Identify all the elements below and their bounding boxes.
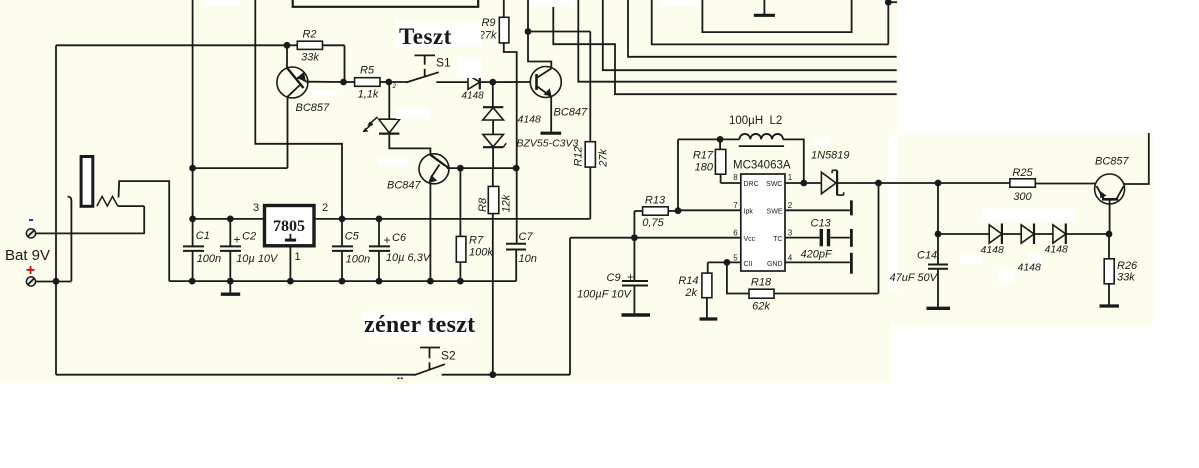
wire R12 top riser bbox=[589, 32, 591, 142]
svg-text:+: + bbox=[384, 233, 391, 247]
svg-text:10µ 6,3V: 10µ 6,3V bbox=[386, 252, 432, 264]
white patch above 1N5819 bbox=[813, 137, 830, 147]
svg-text:C5: C5 bbox=[345, 231, 360, 243]
svg-text:BZV55-C3V3: BZV55-C3V3 bbox=[517, 138, 579, 150]
switch S2 blade bbox=[414, 364, 445, 375]
svg-text:27k: 27k bbox=[598, 149, 610, 168]
transistor Q4 BC857 body bbox=[1095, 174, 1125, 204]
wire D5 to output node bbox=[836, 182, 879, 184]
svg-text:47uF 50V: 47uF 50V bbox=[890, 272, 939, 284]
transistor Q3 base bar bbox=[430, 155, 444, 166]
svg-text:S1: S1 bbox=[436, 56, 451, 70]
transistor Q3 BC847 body bbox=[419, 154, 449, 184]
svg-text:+: + bbox=[234, 233, 241, 247]
node diode row junction bbox=[935, 231, 942, 238]
node battery plus junction bbox=[53, 278, 60, 285]
resistor R5 bbox=[344, 81, 355, 83]
svg-text:R9: R9 bbox=[481, 17, 495, 29]
transistor Q3 collector diagonal bbox=[444, 165, 449, 168]
switch S2 actuator bbox=[420, 347, 440, 349]
transistor Q2 BC847 body bbox=[530, 67, 561, 98]
svg-text:12k: 12k bbox=[501, 194, 513, 212]
white patch top edge 2 bbox=[530, 0, 575, 7]
wire GND pin4 wire bbox=[785, 261, 850, 263]
svg-text:C13: C13 bbox=[811, 218, 832, 230]
node S1 input junction bbox=[385, 79, 392, 86]
resistor R7 bbox=[456, 236, 466, 262]
svg-text:10µ 10V: 10µ 10V bbox=[236, 253, 279, 265]
white patch top edge 1 bbox=[205, 0, 240, 6]
node Q3 emitter bottom bbox=[427, 278, 434, 285]
wire collector node to top edge bbox=[527, 0, 529, 32]
svg-text:3: 3 bbox=[788, 229, 793, 238]
bar pin4 connector stub bbox=[850, 253, 853, 274]
wire R18 right to output riser bbox=[774, 293, 879, 295]
connector plug body bbox=[81, 157, 93, 207]
wire bus V2 from top to y82 rail bbox=[578, 0, 896, 82]
ground symbol inside top-right block bbox=[763, 0, 765, 15]
svg-text:R26: R26 bbox=[1117, 260, 1138, 272]
svg-text:R8: R8 bbox=[477, 197, 489, 212]
svg-text:+: + bbox=[627, 270, 634, 284]
node C2 bottom bbox=[227, 278, 234, 285]
wire S1 to D1 bbox=[436, 81, 468, 83]
svg-text:C2: C2 bbox=[242, 231, 256, 243]
white patch below mid diode bbox=[999, 268, 1016, 284]
diode D7 4148 bbox=[1021, 225, 1034, 243]
svg-text:C6: C6 bbox=[392, 232, 407, 244]
transistor Q4 collector diagonal bbox=[1117, 186, 1124, 198]
white patch near LED bbox=[396, 108, 430, 119]
switch S1 actuator T-bar bbox=[415, 54, 436, 56]
transistor Q4 emitter diagonal bbox=[1097, 186, 1104, 199]
wire Q4 collector jog up bbox=[1124, 133, 1149, 184]
svg-text:1: 1 bbox=[788, 173, 793, 182]
transistor Q3 emitter arrow bbox=[428, 175, 437, 183]
transistor Q2 emitter diagonal bbox=[537, 86, 552, 97]
transistor Q2 emitter arrow bbox=[544, 88, 552, 96]
svg-text:33k: 33k bbox=[301, 52, 319, 64]
schematic cream background lower bbox=[0, 325, 891, 383]
node C1 rail y168 junction bbox=[189, 165, 196, 172]
svg-text:R2: R2 bbox=[302, 29, 316, 41]
node SWC L2 junction bbox=[800, 180, 807, 187]
white patch above right diodes bbox=[981, 209, 1076, 222]
svg-text:4148: 4148 bbox=[462, 91, 485, 102]
node R2 left junction bbox=[284, 42, 291, 49]
wire Q3 emitter to ground rail bbox=[429, 183, 431, 281]
wire Ipk wire bbox=[678, 209, 741, 211]
svg-text:2: 2 bbox=[788, 201, 793, 210]
svg-text:BC847: BC847 bbox=[554, 107, 589, 119]
wire output to R25 bbox=[938, 182, 1010, 184]
svg-text:BC857: BC857 bbox=[1095, 156, 1130, 168]
diode D1 4148 bbox=[468, 75, 480, 89]
ic U2 MC34063A box bbox=[741, 174, 785, 271]
svg-text:6: 6 bbox=[733, 229, 738, 238]
svg-text:2k: 2k bbox=[684, 287, 697, 299]
diode D6 4148 bbox=[989, 225, 1002, 243]
wire Q1 emitter to node bbox=[308, 81, 344, 83]
wire collector rail y168 bbox=[447, 167, 516, 169]
schematic cream background main bbox=[0, 0, 897, 325]
svg-text:100k: 100k bbox=[469, 247, 493, 259]
svg-text:0,75: 0,75 bbox=[642, 217, 664, 229]
capacitor C6 bbox=[369, 245, 390, 247]
node C6 bottom bbox=[376, 278, 383, 285]
capacitor C9 bbox=[633, 238, 635, 281]
svg-text:2: 2 bbox=[322, 202, 328, 214]
wire diode row segment 4 bbox=[1066, 233, 1109, 235]
wire diode row segment 1 bbox=[938, 233, 989, 235]
transistor Q1 emitter diagonal bbox=[298, 77, 308, 82]
wire outer frame rect2 right riser bbox=[887, 2, 889, 44]
transistor Q1 base riser bbox=[286, 45, 288, 68]
node R7 bottom bbox=[457, 278, 464, 285]
terminal minus bbox=[26, 229, 35, 238]
svg-text:5: 5 bbox=[733, 254, 738, 263]
svg-text:4148: 4148 bbox=[518, 114, 542, 126]
wire C1 riser from top edge bbox=[192, 0, 194, 219]
svg-text:Ipk: Ipk bbox=[744, 209, 754, 216]
svg-text:8: 8 bbox=[733, 173, 738, 182]
svg-text:R7: R7 bbox=[469, 235, 484, 247]
capacitor C5 bbox=[332, 245, 353, 247]
wire D1 junction down to stack bbox=[492, 82, 494, 107]
svg-text:1N5819: 1N5819 bbox=[811, 150, 850, 162]
inductor L2 core bar bbox=[739, 145, 784, 147]
capacitor C14 bbox=[937, 234, 939, 265]
transistor Q1 emitter arrow bbox=[296, 72, 306, 80]
wire R8 bottom to S2 rail bbox=[492, 214, 494, 375]
diode D8 4148 bbox=[1053, 225, 1066, 243]
switch S1 blade bbox=[389, 81, 408, 83]
wire top frame box bottom (cut-off block) bbox=[293, 0, 479, 7]
svg-text:62k: 62k bbox=[752, 301, 770, 313]
wire stack bottom to collector rail bbox=[492, 147, 494, 168]
svg-text:7: 7 bbox=[733, 201, 738, 210]
capacitor C7 bbox=[506, 243, 526, 245]
svg-text:C14: C14 bbox=[917, 250, 937, 262]
resistor R2 bbox=[287, 44, 297, 46]
svg-text:1,1k: 1,1k bbox=[358, 89, 379, 101]
svg-text:R17: R17 bbox=[693, 150, 714, 162]
wire Q3 collector to rail bbox=[446, 166, 447, 169]
wire Vcc riser bbox=[569, 238, 571, 375]
wire R18 left path bbox=[727, 262, 749, 293]
wire S2 to R8 junction bbox=[442, 374, 570, 376]
node pin5 junction bbox=[724, 259, 731, 266]
regulator U1 7805 box bbox=[265, 206, 315, 246]
node C1 bottom bbox=[189, 278, 196, 285]
svg-text:SWC: SWC bbox=[766, 181, 782, 188]
svg-text:300: 300 bbox=[1013, 191, 1032, 203]
svg-text:zéner teszt: zéner teszt bbox=[364, 312, 475, 338]
svg-text:R25: R25 bbox=[1012, 167, 1033, 179]
diode D3 BZV55-C3V3 (down) bbox=[483, 134, 504, 146]
svg-text:100µH L2: 100µH L2 bbox=[729, 115, 782, 127]
wire diode row segment 2 bbox=[1002, 233, 1021, 235]
wire R12 bottom to 5V rail bbox=[589, 167, 591, 219]
svg-text:100n: 100n bbox=[197, 253, 221, 265]
resistor R17 bbox=[719, 139, 721, 149]
wire D1 junction to Q2 base bbox=[493, 81, 531, 83]
wire CII pin5 wire bbox=[708, 261, 741, 263]
wire left main vertical x56 bbox=[55, 45, 57, 374]
svg-text:4148: 4148 bbox=[1045, 244, 1069, 256]
wire between stack diodes bbox=[492, 120, 494, 134]
wire bottom rail to S2 bbox=[56, 374, 415, 376]
wire R7 riser bbox=[459, 168, 461, 236]
node collector bus junction bbox=[525, 28, 532, 35]
wire output feedback riser bbox=[878, 183, 880, 294]
node D1 cathode junction bbox=[489, 79, 496, 86]
transistor Q2 collector diagonal bbox=[537, 69, 552, 79]
transistor Q3 emitter diagonal bbox=[431, 165, 440, 178]
svg-text:S2: S2 bbox=[441, 349, 456, 363]
svg-text:GND: GND bbox=[767, 261, 783, 268]
wire L2 input bbox=[678, 138, 739, 140]
diode D5 1N5819 bbox=[821, 172, 836, 194]
bar pin3 connector stub bbox=[850, 229, 853, 247]
ground symbol under C2 bbox=[229, 281, 231, 292]
regulator U1 tab symbol bbox=[289, 234, 291, 239]
transistor Q4 base bar bbox=[1102, 198, 1118, 201]
transistor Q1 BC857 body bbox=[277, 67, 308, 98]
wire Vcc feed bbox=[570, 237, 741, 239]
white patch right diode mid bbox=[960, 255, 981, 264]
node C14 top junction bbox=[935, 180, 942, 187]
wire outer frame rect2 left side bbox=[652, 0, 889, 44]
LED D4 arrows bbox=[371, 117, 378, 123]
node R5 left junction bbox=[340, 79, 347, 86]
resistor R25 bbox=[1010, 179, 1035, 187]
svg-text:BC857: BC857 bbox=[296, 102, 331, 114]
wire diode row segment 3 bbox=[1034, 233, 1053, 235]
node C6 top junction bbox=[376, 216, 383, 223]
wire bus V5 from top to y57 rail bbox=[628, 0, 897, 57]
svg-text:-: - bbox=[28, 211, 33, 228]
node C1 top junction bbox=[189, 216, 196, 223]
transistor Q4 emitter arrow bbox=[1100, 191, 1107, 199]
wire R25 to Q4 base bbox=[1035, 183, 1096, 185]
wire ground rail bbox=[169, 280, 516, 282]
white patch top edge 3 bbox=[660, 0, 700, 6]
wire minus terminal to plug bbox=[36, 232, 145, 234]
wire R7 bottom to ground rail bbox=[459, 262, 461, 281]
wire plus terminal to rail bbox=[36, 281, 72, 283]
svg-text:7805: 7805 bbox=[273, 218, 305, 235]
connector plug cable zigzag bbox=[97, 196, 118, 206]
LED D4 body bbox=[379, 119, 400, 133]
node C5 bottom bbox=[339, 278, 346, 285]
svg-text:100n: 100n bbox=[346, 253, 370, 265]
connector plug pin hook bbox=[68, 197, 72, 282]
capacitor C1 bbox=[183, 245, 204, 247]
node R17 top junction bbox=[717, 136, 724, 143]
svg-text:10n: 10n bbox=[519, 253, 537, 265]
white seam between blocks bbox=[889, 135, 898, 292]
svg-text:1: 1 bbox=[294, 251, 300, 263]
wire output to C14 node bbox=[879, 182, 939, 184]
node C5 top junction bbox=[339, 216, 346, 223]
svg-text:33k: 33k bbox=[1117, 272, 1135, 284]
resistor R8 bbox=[492, 168, 494, 186]
wire L2 to SWC riser bbox=[783, 139, 804, 183]
wire SWC pin1 wire bbox=[785, 182, 822, 184]
wire collector node to R12 riser bbox=[528, 31, 590, 33]
node junction top-right bbox=[885, 0, 892, 6]
wire inner frame rect1 (top-right block outline) bbox=[702, 0, 851, 32]
wire TC pin3 wire bbox=[785, 237, 820, 239]
svg-text:420pF: 420pF bbox=[801, 249, 833, 261]
wire Q2 collector path to node bbox=[528, 32, 551, 69]
wire plug sleeve to ground rail bbox=[119, 181, 170, 281]
svg-text:DRC: DRC bbox=[744, 181, 759, 188]
resistor R9 bbox=[503, 0, 505, 17]
svg-text:R5: R5 bbox=[360, 65, 375, 77]
node R13 right junction bbox=[675, 207, 682, 214]
ground bar under Q2 bbox=[541, 132, 562, 135]
svg-text:Teszt: Teszt bbox=[399, 24, 452, 49]
transistor Q1 collector diagonal bbox=[287, 85, 300, 97]
node 7805 pin1 bottom bbox=[287, 278, 294, 285]
svg-text:C7: C7 bbox=[519, 231, 534, 243]
wire S1 node down to LED bbox=[388, 82, 390, 119]
white patch behind Teszt bbox=[395, 21, 481, 47]
wire 7805 pin3 wire bbox=[193, 218, 265, 220]
wire top horizontal feed y45 bbox=[56, 44, 287, 46]
svg-text:R13: R13 bbox=[645, 195, 666, 207]
svg-text:4: 4 bbox=[788, 254, 793, 263]
capacitor C2 bbox=[220, 245, 241, 247]
label zener teszt white patch bbox=[363, 312, 473, 337]
wire R9 bottom jog to C7 riser bbox=[504, 43, 517, 244]
white patch right of mid 4148 bbox=[1028, 253, 1043, 264]
wire second top vertical jog bbox=[255, 0, 342, 219]
svg-text:100µF 10V: 100µF 10V bbox=[577, 289, 633, 301]
wire Q2 emitter down bbox=[550, 97, 552, 133]
wire Q4 base down bbox=[1109, 199, 1111, 234]
svg-text:TC: TC bbox=[773, 236, 782, 243]
wire stub right of top-right junction bbox=[888, 1, 897, 3]
svg-text:3: 3 bbox=[253, 202, 259, 214]
wire left collector rail y168 bbox=[193, 167, 288, 169]
inductor L2 bbox=[739, 134, 783, 139]
node output junction bbox=[875, 180, 882, 187]
svg-text:4148: 4148 bbox=[981, 244, 1005, 256]
svg-text:BC847: BC847 bbox=[387, 180, 422, 192]
white patch above D1 4148 bbox=[457, 57, 481, 78]
wire 5V rail bbox=[314, 218, 590, 220]
svg-text:SWE: SWE bbox=[767, 209, 783, 216]
ground bar under R14 bbox=[700, 317, 718, 320]
resistor R18 bbox=[749, 289, 774, 298]
node S2 R8 junction bbox=[489, 371, 496, 378]
wire R2 right riser to emitter node bbox=[344, 45, 346, 82]
tiny marks under S2 bbox=[398, 378, 400, 380]
wire R17 to pin8 bbox=[721, 182, 741, 184]
schematic cream background right block bbox=[889, 135, 1153, 325]
node C9 junction bbox=[631, 234, 638, 241]
ground bar under R26 bbox=[1100, 304, 1120, 307]
svg-text:Vcc: Vcc bbox=[744, 236, 756, 243]
node C7 top junction bbox=[513, 165, 520, 172]
node Q4 emitter junction bbox=[1106, 231, 1113, 238]
svg-text:C9: C9 bbox=[607, 272, 621, 284]
svg-text:R14: R14 bbox=[678, 275, 698, 287]
svg-text:2: 2 bbox=[392, 83, 397, 90]
resistor R14 bbox=[707, 262, 709, 273]
wire Q1 collector down bbox=[287, 98, 289, 168]
white patch left of Q3 bbox=[378, 157, 407, 165]
wire SWE pin2 wire bbox=[785, 209, 850, 211]
diode D2 4148 (up) bbox=[483, 106, 503, 108]
svg-text:CII: CII bbox=[744, 261, 753, 268]
white patch under Q1 bbox=[309, 90, 337, 97]
wire R13 left riser bbox=[633, 211, 635, 238]
resistor R13 bbox=[634, 210, 642, 212]
capacitor C13 bbox=[820, 229, 823, 246]
transistor Q2 base bar bbox=[535, 74, 538, 90]
node C2 top junction bbox=[227, 216, 234, 223]
wire bus V4 from top to y70 rail bbox=[603, 0, 897, 70]
svg-text:180: 180 bbox=[695, 162, 714, 174]
wire bus V1 from top via jog to y94 rail bbox=[553, 0, 896, 94]
svg-text:R18: R18 bbox=[751, 277, 772, 289]
transistor Q1 base bar bbox=[287, 68, 304, 88]
wire L2 left riser bbox=[677, 139, 679, 210]
wire C14 riser bbox=[937, 183, 939, 234]
bar pin2 connector stub bbox=[850, 200, 853, 215]
svg-text:MC34063A: MC34063A bbox=[733, 160, 791, 172]
wire LED cathode to Q3 base bbox=[389, 134, 430, 155]
resistor R12 bbox=[585, 142, 595, 167]
wire 7805 pin1 to ground rail bbox=[289, 246, 291, 281]
terminal plus bbox=[26, 277, 35, 286]
svg-text:C1: C1 bbox=[196, 230, 210, 242]
node Q3 collector junction bbox=[457, 165, 464, 172]
resistor R26 bbox=[1108, 234, 1110, 259]
